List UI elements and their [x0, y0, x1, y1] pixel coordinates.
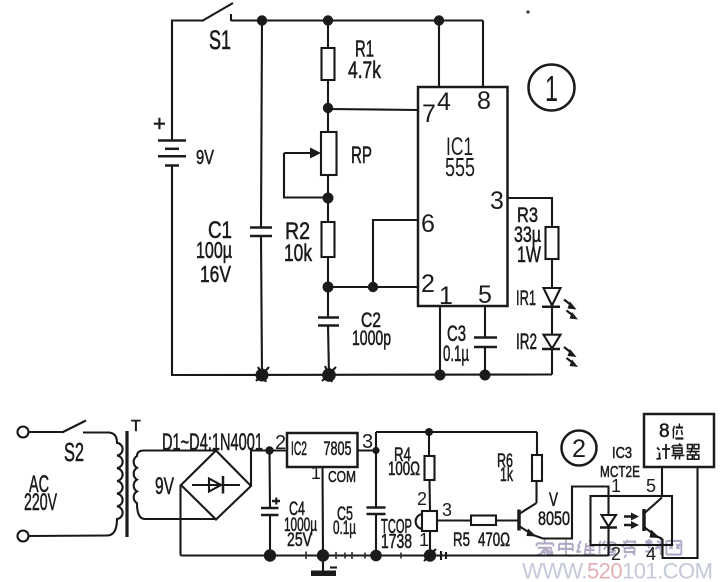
capacitor C4 1000u 25V	[261, 498, 317, 552]
svg-text:R5: R5	[453, 530, 470, 551]
label AC 220V	[24, 471, 57, 516]
glyph wei	[673, 424, 684, 439]
wire R4 bottom to receiver	[428, 480, 431, 511]
LED IR2	[516, 329, 578, 367]
char liao	[645, 539, 661, 555]
receiver TCOP1738	[381, 511, 437, 553]
wire C1 top	[261, 21, 262, 228]
wire pin3	[508, 198, 553, 227]
svg-text:2: 2	[417, 489, 427, 509]
svg-text:S2: S2	[64, 437, 84, 467]
wire switch to primary	[83, 431, 109, 433]
svg-text:470Ω: 470Ω	[478, 530, 510, 551]
char jia	[536, 539, 553, 555]
svg-text:7: 7	[422, 100, 436, 128]
svg-text:9V: 9V	[155, 473, 174, 500]
svg-text:IR2: IR2	[516, 329, 537, 354]
svg-text:1: 1	[545, 68, 558, 109]
potentiometer RP	[284, 132, 372, 198]
wire opto pin5 up	[661, 467, 663, 496]
wire collector to R6	[535, 481, 537, 503]
wire secondary top to bridge	[143, 449, 216, 451]
wire pin6 loop	[373, 220, 418, 287]
wire C4 bottom	[269, 515, 271, 556]
wire R6 top	[536, 432, 538, 455]
wire top rail left segment	[172, 19, 203, 21]
node circled 1	[529, 65, 575, 111]
wire C4 top	[268, 451, 271, 509]
node terminal top	[18, 427, 29, 438]
svg-text:8050: 8050	[538, 509, 570, 530]
optocoupler IC3 MCT2E box	[591, 445, 673, 545]
resistor R5 470	[453, 516, 510, 552]
opto LED	[600, 515, 617, 528]
node junction RP-wiper/R2	[323, 193, 334, 204]
svg-text:7805: 7805	[324, 439, 352, 460]
transformer T primary winding	[107, 433, 123, 536]
char wang	[666, 541, 681, 555]
svg-text:555: 555	[445, 152, 475, 182]
glyph qi	[687, 445, 700, 460]
transistor V 8050	[519, 490, 570, 537]
svg-text:0.1µ: 0.1µ	[443, 341, 469, 366]
char xiu	[598, 541, 615, 556]
node blob C4-rail	[264, 549, 276, 561]
node terminal bottom	[18, 531, 29, 542]
wire top rail right segment	[231, 19, 483, 21]
glyph ji	[657, 444, 671, 459]
svg-text:10k: 10k	[284, 240, 313, 267]
resistor R2 10k	[284, 218, 335, 267]
svg-text:IC2: IC2	[291, 439, 307, 460]
ground	[311, 556, 337, 577]
wire secondary bottom to bridge	[144, 518, 216, 520]
svg-text:5: 5	[646, 476, 656, 496]
wire battery bottom	[171, 166, 173, 377]
glyph suan	[672, 444, 685, 460]
capacitor C2 1000p	[318, 309, 391, 350]
svg-text:2: 2	[275, 432, 286, 454]
node blob C5-rail	[370, 550, 382, 562]
transformer core	[125, 431, 128, 537]
wire IR2 bottom	[551, 349, 553, 375]
wire C1 bottom	[261, 236, 262, 375]
wire IC2 pin3	[358, 449, 377, 451]
opto light arrows	[624, 513, 639, 530]
node blob receiver-rail	[424, 549, 446, 562]
node circled 2	[562, 431, 597, 466]
svg-text:8: 8	[477, 87, 491, 115]
svg-text:+: +	[153, 111, 166, 136]
svg-text:100µ: 100µ	[196, 237, 232, 263]
resistor R6 1k	[497, 451, 542, 486]
svg-text:3: 3	[490, 187, 504, 215]
resistor R3 33u 1W	[514, 204, 559, 267]
resistor R4 100	[388, 445, 435, 480]
wire pin4	[438, 21, 440, 88]
diode bridge D1-D4	[162, 429, 263, 520]
wire pin5	[484, 306, 486, 338]
calculator box 8-digit	[644, 414, 714, 467]
svg-text:2: 2	[572, 435, 586, 463]
svg-text:2: 2	[421, 270, 435, 298]
transformer secondary winding	[134, 451, 145, 520]
wire RP bottom	[327, 175, 329, 222]
opto phototransistor	[644, 498, 663, 540]
switch S1	[202, 3, 233, 55]
LED IR1	[516, 287, 578, 320]
svg-text:V: V	[549, 490, 558, 511]
svg-text:IC3: IC3	[612, 445, 632, 462]
svg-text:4.7k: 4.7k	[348, 57, 382, 84]
svg-text:3: 3	[442, 500, 452, 520]
wire C3 bottom	[484, 347, 486, 375]
svg-text:S1: S1	[209, 25, 231, 55]
wire IR1-IR2	[551, 307, 553, 335]
svg-text:2: 2	[611, 544, 621, 564]
wire top rail bottom-circuit	[376, 431, 537, 433]
node junction C1-top	[257, 15, 267, 25]
svg-text:RP: RP	[351, 142, 372, 169]
wire R1 top	[327, 21, 329, 49]
svg-text:6: 6	[421, 210, 435, 238]
svg-text:25V: 25V	[287, 530, 312, 551]
wire R3 bottom	[551, 259, 553, 288]
svg-text:4: 4	[646, 544, 656, 564]
wire battery top	[171, 20, 173, 141]
wire bridge plus output	[251, 451, 287, 487]
svg-text:100Ω: 100Ω	[388, 459, 420, 480]
svg-text:1k: 1k	[500, 465, 513, 486]
wire bridge minus down	[179, 485, 181, 556]
svg-text:COM: COM	[328, 469, 356, 486]
svg-text:T: T	[131, 418, 141, 435]
wire pin1	[439, 306, 441, 375]
char dian	[559, 540, 573, 556]
wire emitter to opto pin1	[533, 487, 609, 539]
svg-text:1: 1	[419, 530, 429, 550]
svg-text:4: 4	[437, 88, 451, 116]
capacitor C3 0.1u	[443, 321, 497, 366]
wire C5 bottom	[375, 514, 377, 556]
wire C2 bottom	[328, 326, 329, 376]
wire rail scan ticks	[306, 552, 401, 560]
wire terminal bottom	[29, 534, 109, 537]
svg-text:D1~D4:1N4001: D1~D4:1N4001	[162, 429, 263, 456]
svg-text:220V: 220V	[24, 489, 57, 516]
svg-text:1: 1	[439, 282, 453, 310]
wire opto pin4 loop to calculator	[663, 467, 698, 558]
node junction R1/RP/pin7	[323, 103, 333, 113]
op IC1 555 box	[418, 87, 508, 306]
wire R5 to base	[496, 519, 518, 521]
wire R4 top	[428, 432, 430, 456]
svg-text:1: 1	[311, 463, 321, 483]
svg-text:8: 8	[659, 421, 670, 442]
battery 9V	[153, 111, 214, 169]
capacitor C1	[196, 217, 272, 287]
node junction bridge/C4/IC2	[265, 446, 273, 454]
node junction R1-top	[323, 15, 333, 25]
svg-text:1: 1	[611, 476, 621, 496]
node junction R2/C2/pin2	[323, 282, 334, 293]
regulator IC2 7805	[287, 433, 358, 467]
node junction pin3/C5/rail	[372, 447, 379, 454]
wire pin8	[482, 21, 484, 88]
wire bottom rail bottom-circuit	[181, 554, 609, 556]
wire C5 top	[375, 451, 377, 508]
node junction pin4-top	[434, 15, 444, 25]
wire terminal top	[29, 431, 64, 433]
wire R1 bottom	[327, 80, 329, 132]
svg-text:1000p: 1000p	[352, 327, 391, 350]
resistor R1 4.7k	[322, 36, 382, 85]
wire pin2	[328, 286, 418, 288]
wire opto pin2 down	[607, 528, 609, 557]
node junction R4-top	[425, 428, 433, 436]
wire pin7	[328, 109, 418, 110]
node junction pin1-rail	[435, 370, 446, 381]
node blob ground-rail	[317, 549, 329, 561]
capacitor C5 0.1u	[333, 504, 386, 539]
wire receiver pin1 down	[429, 531, 431, 556]
svg-text:0.1µ: 0.1µ	[333, 518, 356, 539]
svg-text:1738: 1738	[381, 531, 412, 553]
char zi	[621, 540, 635, 558]
wire COM down	[321, 467, 324, 556]
char wei	[576, 540, 594, 554]
node junction pin6-loop	[368, 282, 378, 292]
watermark hanzi line (vector strokes)	[536, 539, 681, 557]
svg-text:16V: 16V	[200, 261, 231, 287]
svg-text:9V: 9V	[196, 147, 214, 169]
svg-text:IR1: IR1	[516, 287, 536, 310]
scan speck	[526, 10, 529, 13]
node blob C1-bottom	[256, 367, 270, 382]
node blob C2-bottom	[322, 366, 336, 382]
wire pin3 up to rail	[375, 432, 377, 451]
node junction C3-rail	[480, 370, 491, 381]
svg-text:1W: 1W	[517, 242, 541, 267]
wire bottom rail top-circuit	[172, 373, 552, 376]
switch S2	[62, 421, 86, 468]
wire receiver pin3	[437, 519, 471, 521]
svg-text:5: 5	[478, 281, 492, 309]
wire R2 bottom	[327, 257, 329, 318]
